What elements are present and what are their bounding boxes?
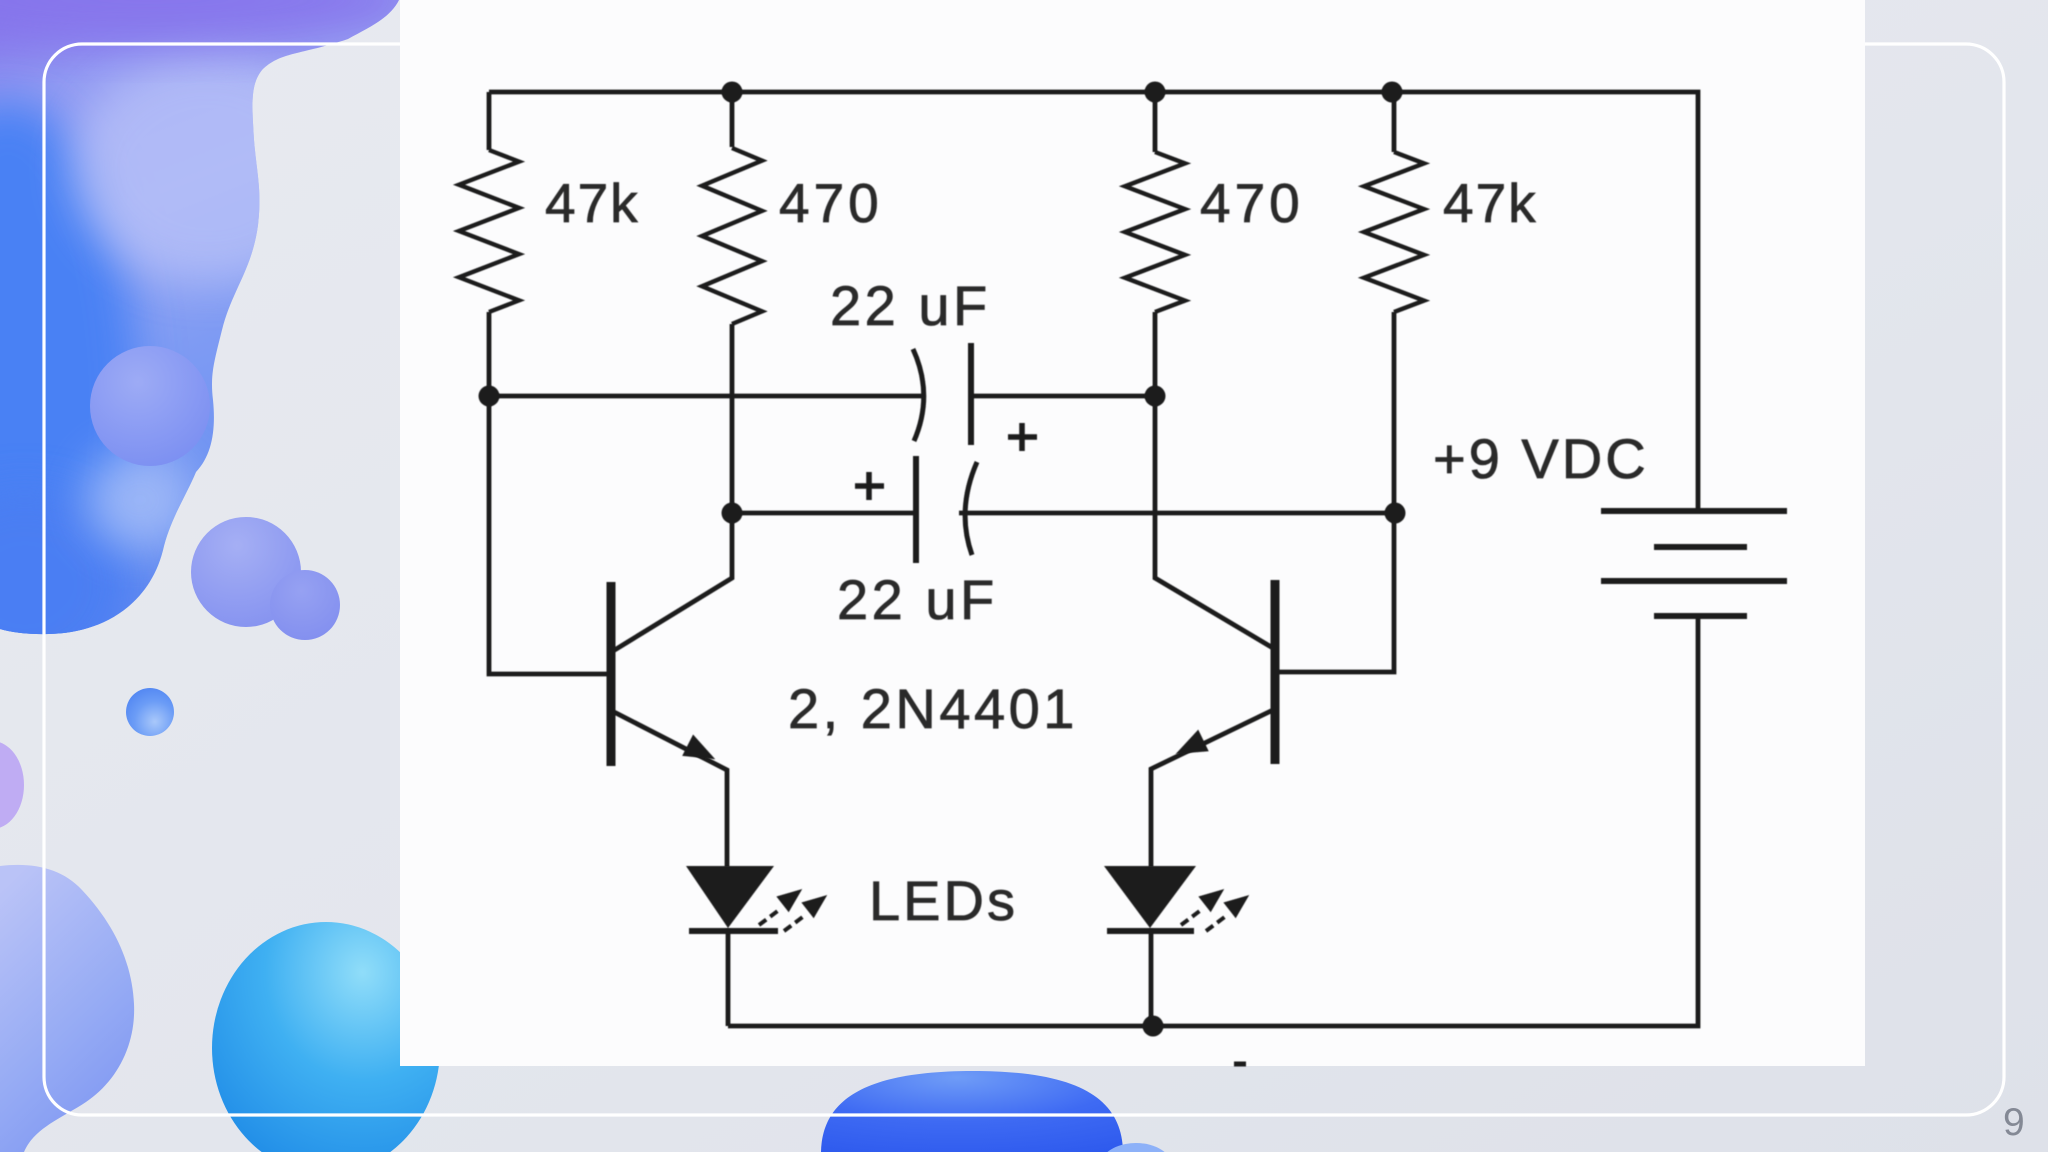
svg-text:LEDs: LEDs — [869, 869, 1018, 932]
svg-text:9: 9 — [2003, 1101, 2025, 1144]
svg-text:470: 470 — [779, 172, 883, 234]
svg-text:47k: 47k — [545, 172, 640, 234]
svg-text:2, 2N4401: 2, 2N4401 — [788, 677, 1078, 740]
svg-text:22 uF: 22 uF — [837, 568, 998, 631]
svg-text:+9 VDC: +9 VDC — [1433, 427, 1649, 490]
svg-text:470: 470 — [1200, 172, 1304, 234]
svg-text:47k: 47k — [1443, 172, 1538, 234]
svg-text:22 uF: 22 uF — [830, 274, 991, 337]
